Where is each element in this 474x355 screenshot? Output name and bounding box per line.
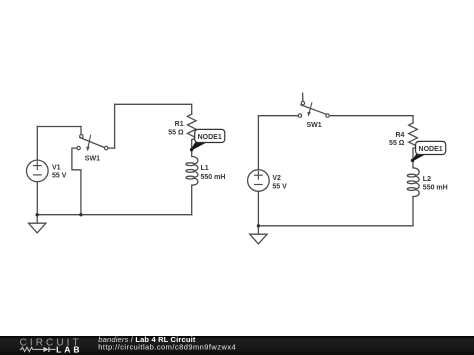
wire V1 bottom lead — [36, 182, 38, 215]
svg-text:NODE1: NODE1 — [419, 146, 443, 153]
switch SW1 (right) upper throw terminal — [301, 101, 304, 104]
switch SW1 (right) right throw terminal — [326, 114, 329, 117]
wire riser to top rail — [114, 104, 116, 148]
wire bottom rail (left circuit) — [37, 214, 192, 216]
inductor L2 — [407, 168, 419, 197]
switch SW1 (right) blade — [301, 105, 326, 114]
svg-text:L1: L1 — [201, 165, 209, 172]
switch SW1 (right circuit) unconnected stub — [302, 93, 304, 101]
switch SW1 (left circuit) blade — [80, 138, 105, 148]
wire V1 top lead — [36, 127, 38, 161]
wire bottom rail (right circuit) — [258, 225, 413, 227]
CircuitLab logo diode — [43, 347, 55, 352]
svg-text:R1: R1 — [175, 121, 184, 128]
wire SW1 right throw to riser — [108, 147, 115, 149]
wire SW1 lower throw to bottom rail (jog) — [72, 148, 81, 215]
voltage source V1 — [27, 160, 49, 182]
wire R1 to L1 (node NODE1) — [191, 140, 193, 157]
resistor R4 — [409, 123, 418, 148]
svg-text:SW1: SW1 — [85, 155, 100, 162]
CircuitLab logo resistor squiggle — [20, 347, 43, 351]
wire drop into SW1 pole — [80, 127, 82, 135]
svg-text:V2: V2 — [272, 175, 281, 182]
footer bar — [0, 336, 474, 355]
junction at V1- / ground — [36, 213, 39, 216]
node NODE1 flag (left circuit) — [190, 129, 225, 151]
switch SW1 (left) actuator arrow — [88, 135, 90, 146]
svg-text:R4: R4 — [395, 132, 404, 139]
switch SW1 (left) right throw terminal — [105, 146, 108, 149]
ground (right circuit) — [250, 226, 267, 244]
node NODE1 flag (right circuit) — [411, 141, 446, 162]
svg-text:550 mH: 550 mH — [423, 185, 448, 192]
wire V2 bottom lead — [257, 191, 259, 226]
svg-text:SW1: SW1 — [307, 122, 322, 129]
ground (left circuit) — [29, 215, 46, 233]
svg-text:550 mH: 550 mH — [201, 174, 226, 181]
voltage source V2 — [248, 170, 270, 192]
wire R4 to L2 (node NODE1) — [412, 148, 414, 168]
wire L1 bottom lead — [191, 185, 193, 215]
junction at SW1 throw / bottom rail — [79, 213, 82, 216]
svg-text:L2: L2 — [423, 176, 431, 183]
resistor R1 — [187, 114, 196, 140]
switch SW1 (left) pole terminal — [80, 135, 83, 138]
wire R4 top lead — [412, 116, 414, 123]
svg-text:55 Ω: 55 Ω — [389, 140, 405, 147]
wire top rail (left circuit) — [115, 103, 192, 105]
wire V1 to SW1 (top-left horizontal) — [37, 126, 81, 128]
wire R1 top lead — [191, 104, 193, 114]
switch SW1 (left) lower-left throw terminal — [77, 146, 80, 149]
wire L2 bottom lead — [412, 197, 414, 226]
junction at V2- / ground — [257, 224, 260, 227]
switch SW1 (right) actuator arrow — [309, 103, 311, 112]
svg-text:LAB: LAB — [56, 345, 80, 355]
svg-text:55 V: 55 V — [272, 183, 287, 190]
svg-text:55 V: 55 V — [52, 173, 67, 180]
svg-text:http://circuitlab.com/c8d9mn9f: http://circuitlab.com/c8d9mn9fwzwx4 — [98, 342, 236, 351]
switch SW1 (left) arrowhead — [86, 147, 89, 152]
wire V2 top lead — [257, 116, 259, 170]
switch SW1 (right) left pole terminal — [298, 114, 301, 117]
wire top rail left part (right circuit) — [258, 115, 298, 117]
inductor L1 — [186, 156, 198, 185]
svg-text:V1: V1 — [52, 164, 61, 171]
switch SW1 (right) arrowhead — [307, 112, 310, 117]
svg-text:NODE1: NODE1 — [198, 134, 222, 141]
svg-text:55 Ω: 55 Ω — [168, 129, 184, 136]
wire top rail right part (right circuit) — [329, 115, 413, 117]
